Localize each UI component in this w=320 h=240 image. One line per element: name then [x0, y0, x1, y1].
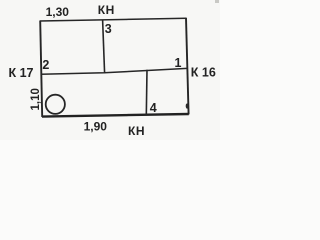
circle (sump) bottom-left: [46, 95, 65, 114]
svg-text:3: 3: [105, 22, 112, 36]
wire: vertical stub at node 3: [103, 20, 105, 74]
blob on right edge: [186, 103, 189, 108]
outline bottom edge: [42, 114, 189, 117]
svg-text:1,10: 1,10: [30, 88, 42, 110]
svg-text:К 16: К 16: [191, 66, 216, 80]
svg-text:4: 4: [150, 101, 157, 115]
outline left edge: [40, 21, 42, 117]
svg-text:1,30: 1,30: [46, 5, 70, 19]
svg-text:1: 1: [175, 56, 182, 70]
outline top edge: [40, 18, 187, 21]
wire: vertical stub at node 4: [145, 70, 148, 116]
speck top-right corner: [215, 0, 219, 3]
svg-text:КН: КН: [128, 124, 145, 138]
paper background: [0, 0, 220, 140]
svg-text:КН: КН: [98, 3, 115, 17]
svg-text:К 17: К 17: [8, 66, 33, 80]
outline right edge: [186, 18, 189, 115]
svg-text:1,90: 1,90: [84, 120, 108, 134]
svg-text:2: 2: [42, 58, 49, 72]
wire: middle horizontal line node2-node1: [41, 68, 187, 74]
